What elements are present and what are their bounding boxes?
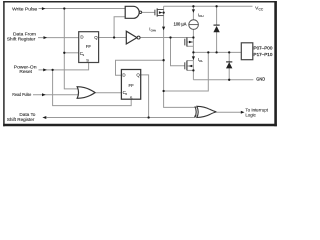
svg-text:OL: OL [199,59,203,63]
OR gate [77,87,95,99]
wire GND rail [193,79,253,81]
label IOL [198,57,204,63]
transistor Q2 weak pull-up PMOS [185,37,187,46]
wire C1 stub [64,52,78,54]
junction FF1 C1 tap [63,52,65,54]
svg-text:FF: FF [86,44,92,49]
flip-flop FF1 [79,32,99,63]
inverter U1 [126,31,137,44]
junction FF1 Q / NAND feedback [113,36,115,38]
wire Q3 stubs [187,60,194,62]
label IOH [198,12,204,18]
svg-text:Shift Register: Shift Register [7,36,36,41]
wire diode D1 column [216,6,218,25]
diode D2 to GND [226,61,232,63]
wire XOR output to interrupt [216,111,241,113]
junction Q1 bulk tie [162,11,164,13]
svg-text:FF: FF [129,83,135,88]
wire feedback to NAND input [114,17,125,38]
svg-text:Shift Register: Shift Register [7,117,35,122]
wire gate branch to Q3 [171,38,185,66]
junction VCC rail / current source [192,5,194,7]
svg-text:Write Pulse: Write Pulse [12,6,38,11]
transistor Q3 output NMOS [185,61,187,71]
junction write pulse / FF1 clock column [63,7,65,9]
arrow current IOHt [162,27,165,31]
label IOHt [149,27,156,33]
svg-text:Logic: Logic [245,113,256,118]
svg-text:Reset: Reset [19,69,32,74]
signal arrows [42,7,245,119]
diode D1 to VCC [214,24,220,26]
transistor Q1 accelerator PMOS [155,8,164,16]
svg-text:OHt: OHt [151,28,157,32]
junction node line / pin branch [207,51,209,53]
arrow current IOL [192,56,195,60]
wire Power-On Reset to FF1 S [39,63,89,70]
junction FF2 Q / data-to line [147,116,149,118]
svg-text:S: S [130,95,133,100]
junction Q3 source tie [192,69,194,71]
arrow power-on reset [43,68,47,71]
svg-text:GND: GND [256,77,265,82]
junction POR / FF2 set branch [51,69,53,71]
wire NAND output to Q1 gate [142,11,155,13]
wire pin-node vertical (Q1 drain, IOHt) down to XOR top input [164,6,197,107]
svg-text:D: D [80,35,83,40]
junction node line / diode D2 [228,51,230,53]
junction GND rail / diode D2 [228,79,230,81]
XOR gate [195,106,196,117]
wire Q2 stubs [187,41,194,43]
arrow read pulse [42,93,46,96]
arrow data to shift register [42,116,46,119]
pin box P07-P00 P17-P10 [241,43,253,60]
current source 100 uA [189,20,199,30]
arrow current IOH [192,9,195,12]
wire Data From Shift Register to FF1 D [38,37,79,39]
junction inverter out / Q3 gate branch [169,36,171,38]
svg-text:D: D [122,72,125,77]
wire FF2 Q down to data-to line [141,75,149,118]
arrow to interrupt logic [241,111,245,114]
svg-text:P17–P10: P17–P10 [254,52,274,57]
svg-text:100 µA: 100 µA [174,21,187,26]
wire Write Pulse to NAND [39,8,126,10]
junction pin node / FF2 D tap [162,59,164,61]
svg-text:CC: CC [259,7,264,11]
arrow data from shift register [44,36,48,39]
wire write vertical to FF1 C1 and OR gate [64,9,79,89]
svg-text:Read Pulse: Read Pulse [12,92,31,97]
svg-text:Q: Q [136,72,140,77]
junction node line / Q2 Q3 column [192,51,194,53]
wire FF1 Q to inverter [99,37,127,39]
wire VCC rail [164,5,253,7]
svg-text:S: S [86,58,89,63]
flip-flop FF2 [121,70,140,100]
wire inverter output to gates [140,37,194,39]
wire current source column [192,6,194,19]
svg-text:Q: Q [94,35,98,40]
junction VCC rail / diode D1 [215,5,217,7]
wire to FF2 D [116,60,164,75]
svg-text:P07–P00: P07–P00 [254,45,274,50]
wire OR output to FF2 C2 [95,92,121,94]
figure border frame [3,1,5,126]
wire diode D2 column [228,52,230,62]
labels left side [7,6,38,122]
junction current source / Q2 [192,36,194,38]
wire POR down to FF2 S [53,70,132,106]
wire node branch to output line [164,52,209,91]
arrow write pulse [42,7,46,10]
junction node line / diode D1 [215,51,217,53]
wire Q3 column to GND rail [192,52,194,79]
junction pin node / XOR branch [162,90,164,92]
wire Data To Shift Register line to XOR input [47,116,197,118]
label VCC [255,6,264,12]
svg-text:OH: OH [199,14,204,18]
wire output node line to pin box [193,51,241,53]
NAND gate [125,6,139,18]
wire Read Pulse to OR gate [33,94,79,96]
